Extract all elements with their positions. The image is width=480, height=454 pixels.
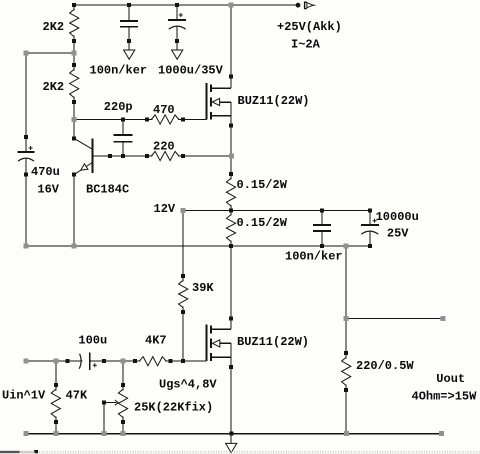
C7 pin top — [121, 118, 125, 122]
C2 pin top — [175, 3, 179, 7]
svg-text:4Ohm=>15W: 4Ohm=>15W — [412, 390, 478, 404]
C6 pin left — [66, 359, 70, 363]
ground main — [226, 443, 237, 452]
pad out — [344, 243, 349, 248]
R2 pin — [72, 100, 76, 104]
capacitor C1 100n/ker — [120, 21, 138, 27]
wire left column upper — [25, 53, 27, 152]
pad — [72, 243, 77, 248]
wire C4 bottom lead — [321, 232, 323, 246]
capacitor C2 1000u/35V — [168, 20, 186, 29]
node rail/2K2 — [72, 3, 76, 7]
C5 pin top — [368, 208, 372, 212]
wire 47K top lead — [55, 361, 57, 389]
wire node B to R 470 — [74, 119, 151, 121]
C7 pin bottom — [121, 154, 125, 158]
resistor R11 220/0.5W — [342, 351, 351, 392]
R2 pin — [72, 63, 76, 67]
node gate M2 — [181, 359, 185, 363]
svg-text:25K(22Kfix): 25K(22Kfix) — [134, 401, 213, 415]
C1 pin bottom — [127, 39, 131, 43]
wire C2 top lead — [176, 5, 178, 20]
ground under C2 — [172, 50, 183, 59]
svg-text:470: 470 — [153, 103, 175, 117]
wire 0.15 to out rail — [230, 242, 232, 247]
pad 12V — [181, 208, 186, 213]
wire C1 to ground — [128, 27, 130, 50]
resistor R3 470 — [145, 115, 185, 124]
wire 0.15 junction — [230, 206, 232, 215]
wire M1 source to R 0.15 — [230, 102, 232, 178]
C3 pin top — [24, 135, 28, 139]
resistor R10 25K pot element — [118, 383, 127, 424]
capacitor C7 220p — [114, 135, 133, 142]
resistor R1 2K2 — [70, 3, 79, 43]
wire pot wiper down — [103, 403, 105, 434]
wire C5 top lead — [369, 210, 371, 224]
node out — [229, 244, 233, 248]
wire Q1 emitter down — [73, 175, 75, 247]
wire M2 drain up to out rail — [230, 246, 232, 329]
wire 2K2 junction column — [73, 37, 75, 69]
svg-text:BUZ11(22W): BUZ11(22W) — [237, 335, 309, 349]
pad rail right — [439, 431, 444, 436]
C7 220p leads — [122, 120, 124, 135]
resistor R9 47K — [51, 383, 60, 424]
svg-text:220: 220 — [153, 140, 175, 154]
svg-text:2K2: 2K2 — [43, 20, 65, 34]
svg-text:39K: 39K — [192, 281, 214, 295]
wire +25V top rail — [74, 4, 298, 6]
svg-text:12V: 12V — [154, 202, 176, 216]
transistor M1 BUZ11 — [206, 83, 231, 120]
wire 12V node horizontal — [183, 209, 370, 211]
svg-text:220p: 220p — [104, 100, 133, 114]
wire to 220/0.5W — [345, 319, 347, 358]
C4 pin bottom — [320, 244, 324, 248]
svg-text:2K2: 2K2 — [43, 80, 65, 94]
Q1 emitter pin — [72, 173, 76, 177]
transistor M2 BUZ11 — [207, 325, 232, 362]
pad — [24, 243, 29, 248]
pad — [24, 51, 29, 56]
wire out node down — [345, 246, 347, 319]
wire M1 drain to +25V — [230, 5, 232, 88]
svg-text:0.15/2W: 0.15/2W — [237, 178, 288, 192]
pad pot — [121, 359, 126, 364]
wire input to C6 — [26, 360, 82, 362]
pad 47K — [53, 359, 58, 364]
wire Q1 base to R 220 — [92, 155, 151, 157]
C6 pin right — [102, 359, 106, 363]
resistor R6 0.15/2W lower — [226, 208, 235, 248]
svg-text:25V: 25V — [387, 227, 409, 241]
M1 drain pin — [229, 75, 233, 79]
wire C4 top lead — [321, 210, 323, 224]
capacitor C3 470u/16V — [18, 152, 35, 161]
capacitor C6 100u — [79, 352, 89, 370]
wire left column lower — [25, 158, 27, 246]
svg-text:BUZ11(22W): BUZ11(22W) — [238, 94, 310, 108]
wire 4K7 to M2 gate — [166, 360, 206, 362]
wire 220/0.5W to bottom rail — [345, 386, 347, 435]
wire 470 to M1 gate — [179, 119, 206, 121]
M1 source pin — [229, 123, 233, 127]
pad — [53, 431, 58, 436]
wire C5 bottom lead — [369, 231, 371, 246]
wire C1 top lead — [128, 5, 130, 21]
svg-text:I~2A: I~2A — [291, 38, 321, 52]
C1 pin top — [127, 3, 131, 7]
svg-text:220/0.5W: 220/0.5W — [356, 359, 414, 373]
pad node B — [72, 117, 77, 122]
M2 drain pin — [229, 317, 233, 321]
svg-text:100n/ker: 100n/ker — [90, 63, 148, 77]
node 12V — [229, 208, 233, 212]
pad rail — [228, 3, 233, 8]
pad — [102, 431, 107, 436]
wire 2K2 to Q1 collector — [73, 98, 75, 139]
capacitor C5 10000u/25V — [361, 225, 379, 234]
svg-text:100u: 100u — [78, 334, 107, 348]
pad input — [24, 359, 29, 364]
bottom window border bar — [0, 451, 480, 454]
svg-text:16V: 16V — [37, 183, 59, 197]
wire C6 to 4K7 — [90, 360, 140, 362]
wire 470u top to 2K2 junction — [26, 52, 74, 54]
resistor R7 39K — [179, 274, 188, 314]
node gate M1 — [181, 118, 185, 122]
bottom bar dot — [34, 450, 38, 454]
resistor R4 220 — [145, 151, 185, 160]
resistor R2 2K2 — [70, 63, 79, 104]
wire M2 source to ground rail — [230, 343, 232, 444]
wire output mid rail — [26, 245, 370, 247]
svg-text:Uin^1V: Uin^1V — [2, 389, 46, 403]
svg-text:1000u/35V: 1000u/35V — [158, 63, 224, 77]
pad — [120, 431, 125, 436]
pot wiper arrow — [102, 400, 118, 405]
svg-text:0.15/2W: 0.15/2W — [237, 216, 288, 230]
node source/ground — [229, 432, 233, 436]
C3 pin bottom — [24, 173, 28, 177]
pad — [344, 431, 349, 436]
svg-text:10000u: 10000u — [376, 210, 419, 224]
transistor Q1 BC184C — [74, 139, 92, 175]
svg-text:4K7: 4K7 — [145, 334, 167, 348]
pad — [72, 51, 77, 56]
terminal +25V arrow — [296, 2, 316, 8]
wire 220 to M1 source node — [179, 155, 231, 157]
wire 39K to gate node — [182, 308, 184, 362]
pad Uout end — [441, 316, 446, 321]
svg-text:470u: 470u — [31, 165, 60, 179]
M2 source pin — [229, 365, 233, 369]
pad M1 source node — [229, 154, 234, 159]
svg-text:100n/ker: 100n/ker — [285, 250, 343, 264]
svg-text:BC184C: BC184C — [86, 183, 129, 197]
ground under C1 — [124, 50, 135, 59]
C2 pin bottom — [175, 39, 179, 43]
resistor R5 0.15/2W upper — [226, 172, 235, 212]
R1 pin — [72, 39, 76, 43]
wire bottom rail — [26, 433, 442, 435]
wire C2 to ground — [176, 27, 178, 51]
Q1 base pin — [108, 154, 112, 158]
capacitor C4 100n/ker out — [313, 225, 331, 231]
svg-text:Ugs^4,8V: Ugs^4,8V — [159, 377, 217, 391]
pad rail left — [24, 431, 29, 436]
svg-text:Uout: Uout — [436, 372, 465, 386]
C5 pin bottom — [368, 244, 372, 248]
svg-text:+25V(Akk): +25V(Akk) — [277, 20, 342, 34]
wire 47K bottom lead — [55, 418, 57, 435]
wire pot bottom lead — [122, 418, 124, 435]
resistor R8 4K7 — [133, 357, 173, 366]
wire to Uout terminal — [346, 318, 443, 320]
wire 12V to 39K — [182, 210, 184, 280]
Q1 collector pin — [72, 137, 76, 141]
pad out2 — [344, 316, 349, 321]
C4 pin top — [320, 208, 324, 212]
svg-text:47K: 47K — [66, 389, 88, 403]
wire pot top lead — [122, 361, 124, 389]
